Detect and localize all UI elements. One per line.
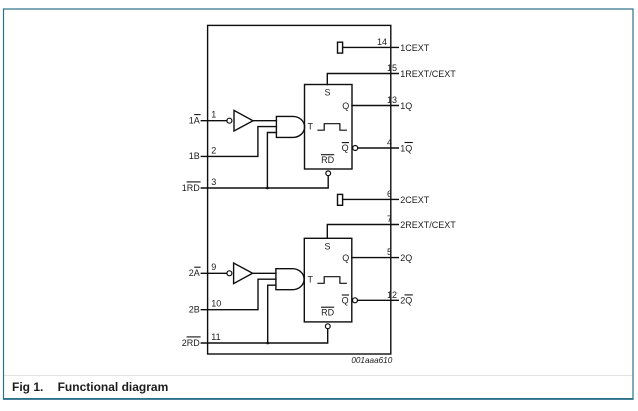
pin RD label U1: [321, 155, 335, 165]
inversion bubble U1 RD: [326, 171, 331, 176]
wire 1Q output pin 13: [352, 105, 398, 107]
pin Q-bar label U1: [342, 143, 349, 153]
inversion bubble U2 RD: [325, 324, 330, 329]
svg-text:9: 9: [211, 262, 216, 272]
svg-text:1RD: 1RD: [182, 183, 201, 193]
pin label 2RD-bar: [182, 337, 201, 348]
wire pin 6: [343, 198, 399, 200]
svg-text:RD: RD: [321, 155, 334, 165]
capacitor stub 1CEXT: [338, 42, 343, 53]
svg-text:1REXT/CEXT: 1REXT/CEXT: [400, 69, 456, 79]
svg-text:T: T: [308, 121, 314, 131]
svg-text:1A: 1A: [189, 116, 200, 126]
wire 2Q-bar output pin 12: [358, 299, 399, 301]
wire inverter A1 output: [253, 120, 276, 122]
svg-text:1: 1: [211, 110, 216, 120]
svg-text:1Q: 1Q: [400, 101, 412, 111]
IC boundary: [208, 25, 391, 354]
inversion bubble A2 input: [227, 271, 232, 276]
and gate G1: [276, 116, 304, 137]
wire 2Q output pin 5: [352, 257, 399, 259]
svg-text:2B: 2B: [189, 305, 200, 315]
svg-text:S: S: [324, 88, 330, 98]
svg-text:Q: Q: [342, 295, 349, 305]
svg-text:Q: Q: [342, 253, 349, 263]
svg-text:15: 15: [387, 63, 397, 73]
svg-text:7: 7: [387, 214, 392, 224]
caption separator rule: [4, 375, 633, 377]
svg-text:2CEXT: 2CEXT: [400, 195, 430, 205]
inverter A1: [234, 110, 253, 131]
svg-text:2RD: 2RD: [182, 338, 201, 348]
junction node pin 11: [266, 342, 269, 345]
svg-text:2Q: 2Q: [400, 296, 412, 306]
pin Q-bar label U2: [342, 295, 349, 305]
svg-text:001aaa610: 001aaa610: [351, 356, 392, 365]
svg-text:11: 11: [211, 332, 220, 342]
pin label 2Q-bar: [400, 295, 413, 306]
svg-text:13: 13: [387, 95, 397, 105]
svg-text:1Q: 1Q: [400, 143, 412, 153]
wire 2RD to and gate G2: [268, 285, 276, 343]
svg-text:1B: 1B: [189, 151, 200, 161]
svg-text:6: 6: [387, 189, 392, 199]
wire pin 7 2REXT/CEXT to S: [327, 225, 398, 239]
svg-text:Q: Q: [342, 101, 349, 111]
svg-text:12: 12: [387, 290, 397, 300]
wire 2RD input pin 11: [201, 329, 327, 343]
svg-text:14: 14: [377, 37, 387, 47]
inversion bubble U1 Q-bar: [353, 146, 358, 151]
svg-text:3: 3: [211, 177, 216, 187]
wire inverter A2 output: [253, 272, 276, 274]
pin label 2A-bar: [189, 267, 201, 278]
wire 1A input pin 1: [201, 120, 227, 122]
svg-text:2A: 2A: [189, 268, 200, 278]
trigger pulse symbol U1: [318, 124, 346, 131]
svg-text:1CEXT: 1CEXT: [400, 43, 430, 53]
inverter A2: [234, 263, 253, 284]
wire pin 14: [343, 46, 399, 48]
wire 2A input pin 9: [201, 272, 227, 274]
svg-text:RD: RD: [321, 308, 334, 318]
svg-text:S: S: [324, 241, 330, 251]
svg-text:5: 5: [387, 247, 392, 257]
inversion bubble U2 Q-bar: [353, 298, 358, 303]
trigger pulse symbol U2: [318, 277, 346, 284]
svg-text:2Q: 2Q: [400, 253, 412, 263]
pin label 1A-bar: [189, 115, 201, 126]
pin label 1RD-bar: [182, 182, 201, 193]
monostable U1 body: [305, 85, 353, 170]
svg-text:Fig 1.: Fig 1.: [12, 380, 43, 394]
and gate G2: [276, 269, 304, 290]
inversion bubble A1 input: [227, 118, 232, 123]
svg-text:T: T: [308, 274, 314, 284]
wire pin 15 1REXT/CEXT to S: [327, 74, 398, 85]
monostable U2 body: [304, 238, 352, 322]
svg-text:2: 2: [211, 145, 216, 155]
svg-text:2REXT/CEXT: 2REXT/CEXT: [400, 220, 456, 230]
svg-text:Q: Q: [342, 143, 349, 153]
pin label 1Q-bar: [400, 143, 413, 154]
svg-text:4: 4: [387, 137, 392, 147]
wire 1B input pin 2: [201, 127, 276, 157]
wire 1RD to and gate G1: [267, 133, 276, 189]
wire 1RD input pin 3: [201, 176, 328, 188]
svg-text:10: 10: [211, 299, 221, 309]
wire 2B input pin 10: [201, 279, 276, 310]
capacitor stub 2CEXT: [338, 194, 343, 205]
svg-text:Functional diagram: Functional diagram: [58, 380, 169, 394]
wire 1Q-bar output pin 4: [358, 147, 399, 149]
pin RD label U2: [321, 307, 335, 317]
junction node pin 3: [266, 187, 269, 190]
